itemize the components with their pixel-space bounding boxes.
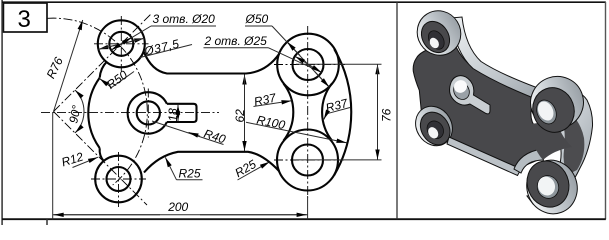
svg-text:R25: R25 xyxy=(233,157,259,180)
svg-text:18: 18 xyxy=(166,108,180,122)
svg-text:R25: R25 xyxy=(179,167,201,181)
svg-text:62: 62 xyxy=(233,109,247,123)
svg-text:R12: R12 xyxy=(60,149,85,169)
svg-text:3 отв. Ø20: 3 отв. Ø20 xyxy=(153,12,216,26)
svg-text:200: 200 xyxy=(167,200,188,214)
svg-text:Ø50: Ø50 xyxy=(245,12,269,26)
svg-text:R37: R37 xyxy=(324,96,350,116)
svg-text:2 отв. Ø25: 2 отв. Ø25 xyxy=(204,34,268,48)
svg-text:R100: R100 xyxy=(255,113,286,133)
svg-text:R76: R76 xyxy=(44,55,66,81)
svg-text:Ø37,5: Ø37,5 xyxy=(142,36,181,58)
svg-text:R50: R50 xyxy=(104,67,130,91)
svg-text:R37: R37 xyxy=(253,90,279,109)
svg-text:3: 3 xyxy=(18,6,31,33)
svg-text:90°: 90° xyxy=(66,104,84,125)
svg-text:76: 76 xyxy=(380,108,394,122)
svg-text:R40: R40 xyxy=(202,126,227,146)
